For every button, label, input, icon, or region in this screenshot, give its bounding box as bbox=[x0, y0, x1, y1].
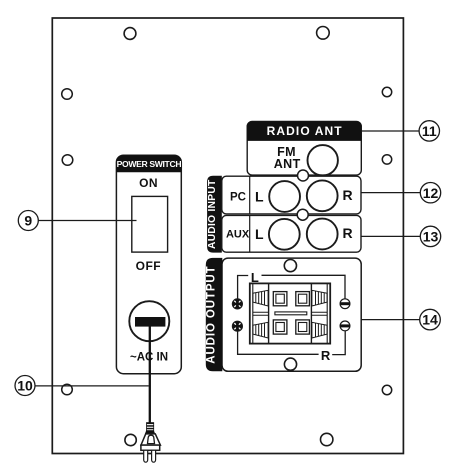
radio ant banner bbox=[247, 121, 361, 141]
svg-text:9: 9 bbox=[24, 213, 32, 229]
rocker switch bbox=[132, 196, 168, 252]
leader 10 bbox=[35, 385, 149, 387]
panel outline bbox=[52, 18, 403, 454]
callout 11 bbox=[419, 121, 439, 141]
R bracket left bbox=[238, 332, 319, 355]
leader 13 bbox=[361, 235, 420, 237]
plug collar bbox=[145, 431, 155, 434]
svg-text:R: R bbox=[342, 225, 352, 241]
terminal inner margins bbox=[253, 284, 327, 343]
terminal square BR bbox=[296, 320, 310, 334]
leader 9 bbox=[38, 220, 136, 222]
pc row divider bbox=[249, 176, 251, 214]
plug body bbox=[141, 434, 160, 445]
leader 11 bbox=[362, 130, 419, 132]
screw hole bottom-right bbox=[321, 433, 333, 445]
screw hole left mid bbox=[62, 155, 73, 166]
svg-text:L: L bbox=[251, 270, 259, 285]
svg-text:POWER SWITCH: POWER SWITCH bbox=[117, 159, 182, 169]
svg-text:R: R bbox=[321, 348, 331, 363]
callout 12 bbox=[420, 183, 440, 203]
audio input banner bbox=[207, 176, 222, 253]
callout 9 bbox=[18, 211, 38, 231]
callout 13 bbox=[420, 226, 440, 246]
R bracket right bbox=[332, 331, 345, 355]
power switch banner bbox=[116, 155, 181, 172]
terminal square TR bbox=[296, 292, 310, 306]
svg-text:OFF: OFF bbox=[136, 259, 162, 273]
pc input row box bbox=[222, 176, 361, 214]
plus screw bottom bbox=[232, 321, 242, 331]
aux row divider bbox=[249, 215, 251, 252]
plug inner arch bbox=[148, 435, 155, 443]
svg-text:13: 13 bbox=[423, 229, 439, 245]
plug base bbox=[141, 445, 160, 450]
audio output banner bbox=[206, 258, 223, 371]
L bracket bbox=[238, 276, 249, 300]
PC R connector bbox=[307, 180, 338, 211]
spring clip fan bottom-left bbox=[253, 322, 268, 338]
svg-text:RADIO ANT: RADIO ANT bbox=[267, 124, 343, 138]
spring clip fan top-left bbox=[253, 290, 268, 306]
PC L connector bbox=[269, 181, 300, 212]
screw hole right upper bbox=[382, 87, 391, 96]
AUX L connector bbox=[269, 219, 300, 250]
plus screw top bbox=[232, 299, 242, 309]
svg-text:ON: ON bbox=[139, 176, 158, 190]
screw hole left lower bbox=[62, 384, 73, 395]
svg-text:PC: PC bbox=[230, 191, 246, 203]
callout 14 bbox=[420, 309, 441, 330]
svg-text:AUX: AUX bbox=[226, 229, 250, 241]
svg-text:L: L bbox=[255, 188, 264, 204]
fan cell dividers bbox=[253, 312, 327, 315]
plug prong left bbox=[144, 450, 148, 462]
screw hole bottom-left bbox=[125, 434, 136, 445]
callout 10 bbox=[15, 376, 35, 396]
screw hole right lower bbox=[382, 385, 391, 394]
plug strain relief bbox=[147, 423, 154, 431]
screw hole top-right bbox=[317, 27, 330, 40]
svg-text:R: R bbox=[342, 187, 352, 203]
svg-text:L: L bbox=[255, 226, 264, 242]
svg-text:14: 14 bbox=[422, 312, 438, 328]
terminal center bar bbox=[275, 312, 307, 315]
terminal cell borders bbox=[269, 284, 312, 343]
power switch box bbox=[116, 155, 181, 374]
minus screw top bbox=[340, 299, 350, 309]
leader 12 bbox=[361, 192, 420, 194]
L bracket right bbox=[262, 275, 346, 298]
screw hole right mid bbox=[382, 155, 391, 164]
svg-text:AUDIO OUTPUT: AUDIO OUTPUT bbox=[205, 265, 217, 363]
spring clip fan top-right bbox=[312, 290, 327, 306]
audio output box bbox=[222, 258, 361, 371]
spring clip fan bottom-right bbox=[312, 322, 327, 338]
AC inlet bar bbox=[135, 317, 165, 327]
AUX R connector bbox=[307, 219, 338, 250]
svg-text:10: 10 bbox=[17, 378, 33, 394]
junction hole pc/aux bbox=[297, 209, 308, 220]
terminal square TL bbox=[273, 292, 287, 306]
minus screw bottom bbox=[340, 321, 350, 331]
screw hole left upper bbox=[62, 89, 73, 100]
svg-text:ANT: ANT bbox=[274, 157, 301, 171]
svg-text:AUDIO INPUT: AUDIO INPUT bbox=[207, 179, 218, 249]
terminal square BL bbox=[273, 320, 287, 334]
plug prong right bbox=[152, 450, 156, 462]
AC inlet circle bbox=[129, 301, 169, 341]
svg-text:12: 12 bbox=[423, 185, 439, 201]
leader 14 bbox=[361, 319, 420, 321]
junction hole fm/pc bbox=[298, 170, 309, 181]
output hole bottom bbox=[284, 358, 296, 370]
screw hole top-left bbox=[124, 28, 136, 40]
speaker terminal outer bbox=[250, 283, 330, 343]
power cord bbox=[149, 327, 151, 424]
aux input row box bbox=[222, 215, 361, 252]
svg-text:11: 11 bbox=[422, 123, 437, 139]
output hole top bbox=[284, 260, 296, 272]
FM ANT connector bbox=[308, 145, 338, 175]
radio ant / fm box bbox=[247, 121, 361, 175]
